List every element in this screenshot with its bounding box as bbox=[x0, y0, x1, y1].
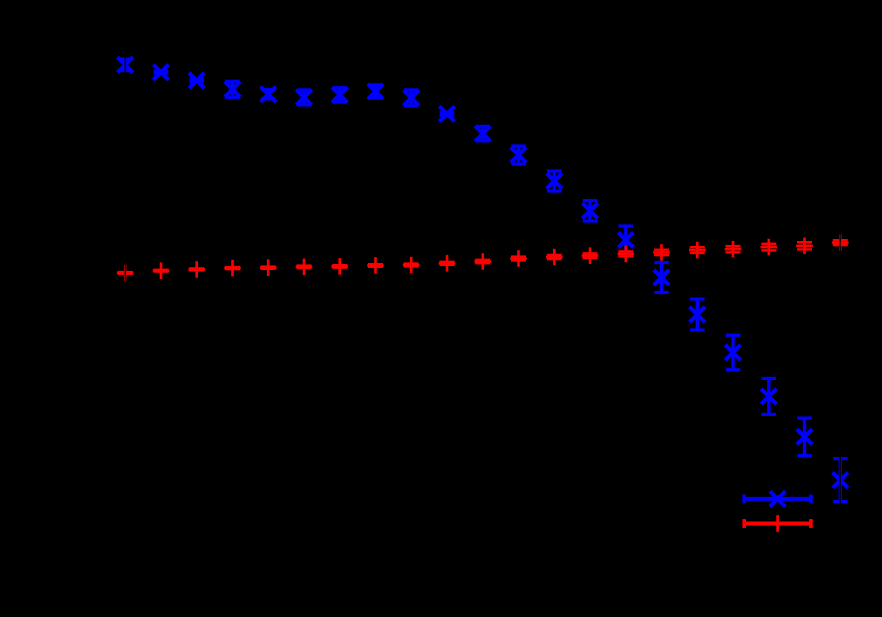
blue errorbar point 19 bbox=[761, 378, 776, 414]
red errorbar point 5 bbox=[260, 259, 277, 276]
blue errorbar point 11 bbox=[475, 126, 490, 141]
blue errorbar point 5 bbox=[261, 87, 276, 102]
blue errorbar point 15 bbox=[618, 226, 633, 254]
red errorbar point 9 bbox=[403, 257, 420, 274]
blue errorbar point 1 bbox=[118, 57, 133, 72]
red errorbar point 19 bbox=[761, 239, 778, 256]
blue errorbar point 17 bbox=[690, 299, 705, 330]
red errorbar point 13 bbox=[546, 249, 563, 266]
blue errorbar point 20 bbox=[797, 418, 812, 456]
red errorbar point 12 bbox=[510, 250, 527, 267]
red errorbar point 17 bbox=[689, 242, 706, 259]
blue errorbar point 14 bbox=[582, 201, 597, 221]
blue errorbar point 2 bbox=[153, 65, 168, 80]
legend blue sample bbox=[744, 491, 811, 506]
blue errorbar point 16 bbox=[654, 263, 669, 293]
blue errorbar point 10 bbox=[439, 106, 454, 121]
blue errorbar point 6 bbox=[296, 90, 311, 105]
red errorbar point 1 bbox=[117, 265, 134, 282]
blue errorbar point 7 bbox=[332, 87, 347, 102]
red errorbar point 14 bbox=[582, 247, 599, 264]
blue errorbar point 9 bbox=[404, 90, 419, 106]
blue errorbar point 18 bbox=[725, 335, 740, 370]
blue errorbar point 3 bbox=[189, 73, 204, 88]
red errorbar point 4 bbox=[224, 260, 241, 277]
red errorbar point 3 bbox=[188, 261, 205, 278]
blue errorbar point 13 bbox=[547, 171, 562, 191]
blue errorbar point 12 bbox=[511, 146, 526, 164]
blue errorbar point 4 bbox=[225, 81, 240, 97]
red errorbar point 7 bbox=[331, 258, 348, 275]
red errorbar point 20 bbox=[796, 238, 813, 255]
red errorbar point 18 bbox=[725, 241, 742, 258]
red errorbar point 6 bbox=[296, 259, 313, 276]
legend red sample bbox=[744, 515, 811, 532]
plot border right bbox=[839, 55, 841, 555]
red errorbar point 2 bbox=[153, 262, 170, 279]
blue errorbar point 21 bbox=[833, 459, 848, 502]
red errorbar point 11 bbox=[474, 253, 491, 270]
red errorbar point 15 bbox=[618, 246, 635, 263]
red errorbar point 8 bbox=[367, 257, 384, 274]
red errorbar point 10 bbox=[439, 255, 456, 272]
red errorbar point 21 bbox=[832, 234, 849, 251]
blue errorbar point 8 bbox=[368, 84, 383, 99]
plot border left bbox=[124, 55, 126, 555]
red errorbar point 16 bbox=[653, 244, 670, 261]
